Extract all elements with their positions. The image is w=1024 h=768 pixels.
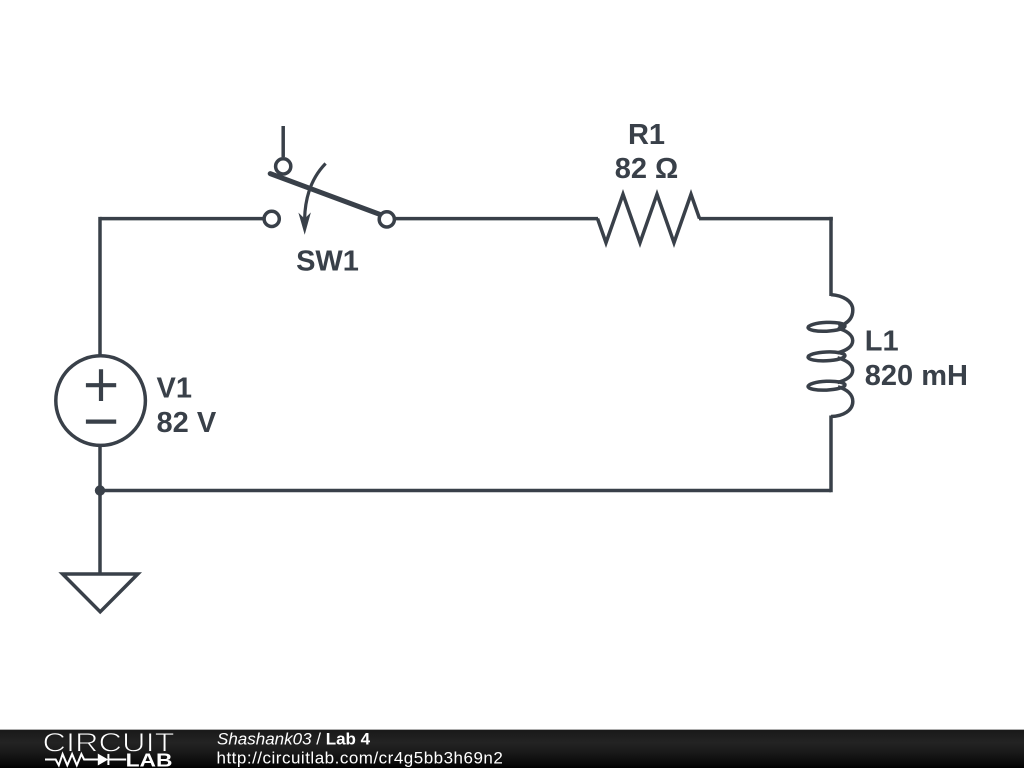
CircuitLab logo resistor-diode squiggle [45, 754, 126, 765]
resistor R1 zigzag [598, 194, 700, 242]
svg-text:SW1: SW1 [296, 246, 359, 278]
svg-text:820 mH: 820 mH [865, 360, 968, 392]
switch SW1 right contact circle [379, 212, 394, 227]
inductor L1 coil [808, 295, 853, 417]
footer bar [0, 729, 1024, 768]
svg-text:R1: R1 [628, 119, 665, 151]
V1 minus sign [86, 420, 116, 424]
svg-text:http://circuitlab.com/cr4g5bb3: http://circuitlab.com/cr4g5bb3h69n2 [217, 749, 504, 768]
svg-text:L1: L1 [865, 326, 899, 358]
voltage source V1 circle [56, 356, 146, 446]
svg-text:V1: V1 [157, 373, 192, 405]
switch SW1 actuator arc [305, 164, 326, 220]
switch SW1 top stub wire [281, 126, 285, 157]
wire resistor to corner [699, 217, 833, 221]
wire left vertical [98, 217, 102, 357]
wire right vertical upper [829, 217, 833, 296]
ground symbol [63, 574, 138, 612]
wire right vertical lower [829, 416, 833, 493]
switch SW1 actuator arrowhead [298, 212, 311, 234]
wire below source [98, 445, 102, 574]
switch SW1 top contact circle [276, 159, 291, 174]
svg-text:Shashank03 / Lab 4: Shashank03 / Lab 4 [217, 730, 371, 749]
V1 plus sign [86, 369, 116, 401]
switch SW1 left contact circle [264, 211, 279, 226]
junction node dot [95, 485, 105, 495]
wire switch to resistor [394, 217, 598, 221]
svg-text:LAB: LAB [126, 750, 173, 768]
svg-text:82 V: 82 V [157, 407, 217, 439]
switch SW1 blade [270, 174, 383, 216]
wire top-left horizontal [100, 217, 266, 221]
CircuitLab logo diode triangle [98, 754, 107, 764]
svg-text:82 Ω: 82 Ω [615, 153, 679, 185]
wire bottom horizontal [100, 489, 831, 493]
